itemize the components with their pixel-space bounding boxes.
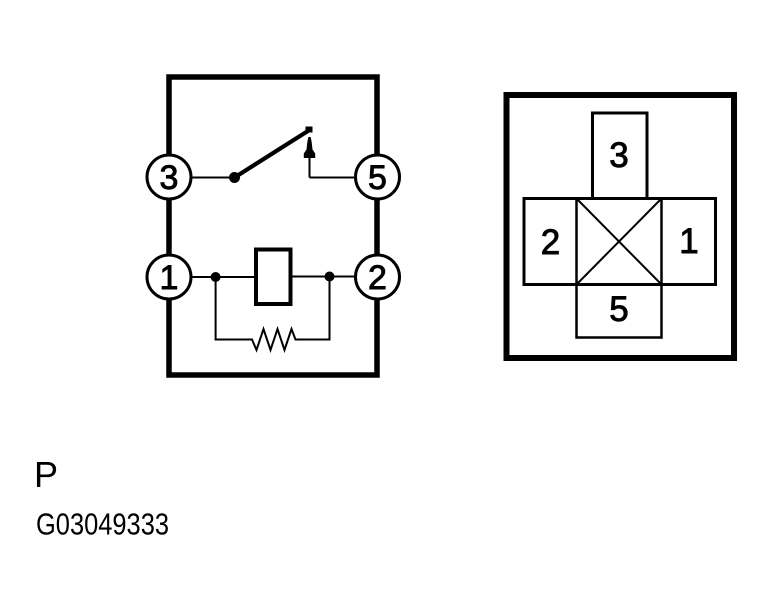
svg-text:3: 3	[160, 159, 179, 197]
svg-text:5: 5	[368, 159, 387, 197]
svg-text:P: P	[34, 454, 58, 495]
relay connector pinout outer box	[507, 95, 735, 358]
middle cavity row (pins 2 and 1)	[524, 199, 716, 285]
keyway box with X	[577, 199, 662, 285]
svg-text:5: 5	[609, 290, 628, 329]
wire: switch arrow to pin 5	[310, 177, 358, 179]
pin 2 terminal circle	[356, 255, 400, 299]
pin 3 terminal circle	[147, 155, 191, 199]
switch SW1 blade (open contact)	[235, 130, 310, 178]
svg-text:1: 1	[160, 259, 179, 297]
node: junction right of coil	[325, 272, 335, 282]
pin 5 cavity	[577, 285, 662, 338]
switch actuator arrow	[304, 137, 315, 158]
relay coil K1	[256, 250, 291, 305]
svg-text:2: 2	[368, 259, 387, 297]
relay internal schematic outer frame	[169, 77, 377, 375]
wire: coil to pin 2	[293, 276, 358, 278]
svg-text:1: 1	[679, 222, 698, 261]
node: switch pivot junction	[229, 172, 240, 183]
wire: pin 3 to switch pivot	[189, 177, 234, 179]
pin 1 terminal circle	[147, 255, 191, 299]
svg-text:3: 3	[609, 136, 628, 175]
wire: pin 1 to coil	[189, 276, 254, 278]
node: junction left of coil	[211, 272, 221, 282]
pin 5 terminal circle	[356, 155, 400, 199]
switch blade tip	[306, 127, 313, 133]
resistor R1 (parallel with coil)	[216, 277, 330, 351]
svg-text:G03049333: G03049333	[36, 507, 169, 542]
pin 3 cavity	[593, 113, 648, 199]
svg-text:2: 2	[541, 223, 560, 262]
